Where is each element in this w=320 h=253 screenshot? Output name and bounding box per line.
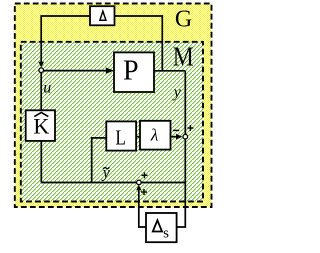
wire: tap on y up and into Delta right side bbox=[115, 16, 163, 71]
wire: Delta output left then down to node A bbox=[41, 16, 90, 66]
wire: Delta_s output up into sum node C bbox=[139, 187, 146, 227]
svg-text:M: M bbox=[173, 40, 194, 71]
block L bbox=[106, 121, 136, 150]
svg-text:y: y bbox=[172, 84, 182, 101]
svg-text:λ: λ bbox=[150, 125, 158, 144]
plus sign at node C (bottom input) bbox=[141, 189, 147, 195]
wire: branch up to L input bbox=[92, 138, 107, 183]
arrowhead into sum node B bbox=[176, 134, 183, 140]
arrowhead into sum node C bbox=[136, 185, 141, 190]
plus sign at node C (right input) bbox=[142, 172, 148, 178]
block P bbox=[114, 52, 154, 92]
wire: node A down to K-hat top bbox=[40, 73, 42, 111]
wire: node A to P input bbox=[44, 70, 109, 72]
svg-text:u: u bbox=[43, 80, 51, 97]
wire: left end up into K-hat bottom bbox=[40, 141, 42, 183]
block K-hat bbox=[26, 110, 55, 141]
svg-text:G: G bbox=[175, 6, 192, 32]
sum node B (circle) bbox=[183, 134, 188, 139]
region G (outer dashed yellow rect) bbox=[15, 4, 212, 208]
arrowhead into P bbox=[106, 68, 114, 74]
svg-text:s: s bbox=[163, 226, 169, 242]
wire: P output to corner bbox=[154, 70, 185, 72]
wire: lambda output toward sum node B bbox=[171, 136, 178, 138]
tilde accent of y-tilde bbox=[103, 167, 109, 169]
region M (inner dashed green hatched rect) bbox=[21, 42, 203, 202]
sum node C (circle) bbox=[137, 180, 142, 185]
svg-text:K: K bbox=[33, 113, 49, 138]
minus sign at node B (lambda input) bbox=[173, 129, 179, 131]
wire: sum node B down with T junction, to Delta_s right side bbox=[177, 139, 186, 227]
block lambda bbox=[140, 121, 171, 150]
wire: y down from corner to sum node B bbox=[184, 71, 186, 135]
sum node A (circle) bbox=[39, 68, 44, 73]
block Delta_s bbox=[146, 213, 177, 242]
wire: L to lambda bbox=[136, 136, 140, 138]
block Delta bbox=[90, 6, 115, 25]
plus sign at node B (y input) bbox=[187, 125, 193, 131]
arrowhead into node A bbox=[38, 62, 44, 68]
svg-text:P: P bbox=[123, 56, 139, 87]
wire: horizontal y-tilde line to sum node C and to left end bbox=[41, 182, 185, 184]
svg-text:y: y bbox=[101, 164, 111, 181]
svg-text:L: L bbox=[115, 125, 126, 149]
